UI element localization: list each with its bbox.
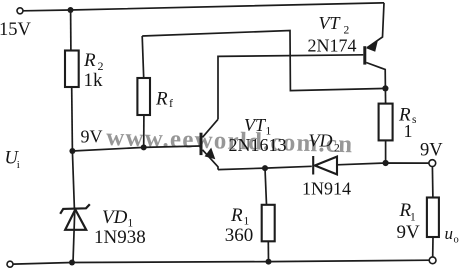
output terminal - (bottom right) (429, 257, 436, 264)
junction dot 9V node (69, 148, 75, 154)
svg-text:1k: 1k (84, 70, 104, 91)
junction dot output node (383, 160, 389, 166)
diode VD2 (313, 156, 337, 175)
input terminal - (bottom left) (7, 261, 13, 267)
node junction top (68, 7, 74, 13)
wire Rf top stem (142, 36, 144, 78)
wire R2 top stem (70, 10, 72, 51)
junction dot VT2 collector (382, 85, 388, 91)
wire VT1 collector to VT2 base (218, 55, 363, 120)
svg-text:VD: VD (102, 207, 128, 228)
resistor Rs (379, 104, 393, 141)
wire Rf to VT2 collector (142, 31, 385, 91)
svg-text:15V: 15V (0, 20, 32, 40)
watermark www.eeworld.com.cn (106, 124, 353, 158)
svg-text:360: 360 (225, 225, 254, 246)
svg-text:VD: VD (309, 130, 333, 150)
wire bottom rail (13, 260, 429, 264)
svg-text:i: i (17, 159, 20, 171)
input terminal + (top left) (17, 8, 23, 14)
resistor R2 (65, 51, 79, 88)
transistor VT2 (363, 46, 366, 64)
junction dot bottom middle (266, 259, 272, 265)
resistor R1 load (427, 198, 439, 238)
svg-text:9V: 9V (420, 141, 443, 161)
wire zener stem (72, 151, 74, 209)
transistor VT1 (200, 133, 203, 155)
svg-text:1N914: 1N914 (302, 178, 351, 198)
junction dot R1-360 top (262, 165, 268, 171)
wire R1 load top stem (431, 167, 434, 198)
wire R1-360 bottom stem (267, 241, 269, 261)
svg-text:s: s (412, 114, 417, 126)
svg-text:2N1613: 2N1613 (229, 135, 287, 155)
zener diode VD1 (60, 204, 90, 230)
svg-text:9V: 9V (397, 222, 421, 243)
wire VT1 emitter/output row (218, 166, 312, 169)
svg-text:R: R (155, 89, 168, 110)
svg-text:VT: VT (319, 13, 342, 33)
svg-text:9V: 9V (81, 126, 103, 146)
svg-text:1: 1 (404, 121, 413, 141)
svg-text:2: 2 (334, 142, 340, 154)
wire R1-360 top stem (265, 168, 267, 205)
svg-text:VT: VT (244, 115, 267, 135)
svg-text:2N174: 2N174 (308, 35, 357, 55)
wire Rs top stem (384, 88, 386, 103)
svg-text:R: R (230, 205, 243, 226)
junction dot Rf bottom (141, 144, 147, 150)
resistor Rf (137, 78, 150, 115)
junction dot bottom left (69, 260, 75, 266)
wire R1 load bottom stem (432, 237, 434, 257)
wire Rf bottom stem (143, 115, 145, 147)
wire Rs bottom stem (385, 140, 387, 163)
resistor R1 360 (262, 205, 275, 242)
node 9V wire (VT1 base) (72, 146, 199, 151)
svg-text:1N938: 1N938 (94, 227, 146, 248)
output terminal + (right) (429, 160, 436, 167)
svg-text:R: R (83, 50, 96, 71)
wire top rail (23, 3, 384, 11)
svg-text:f: f (169, 96, 173, 110)
wire R2 bottom stem (71, 87, 74, 151)
svg-text:u: u (445, 224, 454, 243)
svg-text:o: o (454, 235, 459, 246)
